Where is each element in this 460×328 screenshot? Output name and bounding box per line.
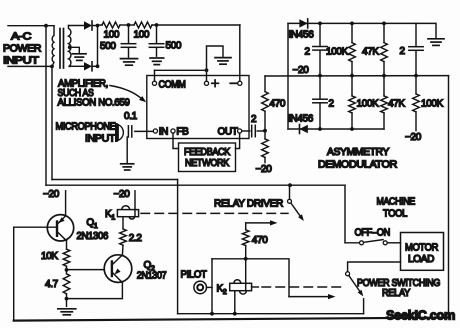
motor load box <box>401 233 444 271</box>
wire node left to pilot <box>212 258 246 260</box>
wire comm drop <box>154 70 156 81</box>
transformer T1 core <box>59 29 61 69</box>
wire K2 stub <box>252 286 259 288</box>
node secondary center tap <box>68 45 72 49</box>
node mid rail a <box>318 74 322 78</box>
wire inner rail <box>52 179 178 181</box>
svg-text:OFF–ON: OFF–ON <box>354 228 390 239</box>
ground microphone <box>121 163 134 165</box>
svg-text:Q1: Q1 <box>86 218 97 231</box>
resistor 100K row1 <box>351 23 353 42</box>
wire to off-on <box>345 242 360 244</box>
svg-text:NETWORK: NETWORK <box>185 158 230 169</box>
wire outer rail <box>46 184 345 186</box>
svg-text:K2: K2 <box>217 284 227 297</box>
node demod input <box>263 129 267 133</box>
resistor 470 driver <box>242 230 249 246</box>
wire Q1 to 10K <box>66 241 68 250</box>
wire 10K to node <box>66 266 68 274</box>
wire left vertical from AC bottom to relay rail <box>51 66 53 179</box>
wire cap to junction <box>257 130 265 132</box>
svg-text:MICROPHONE: MICROPHONE <box>56 122 117 133</box>
svg-text:500: 500 <box>100 41 116 52</box>
wire to filter <box>98 24 103 26</box>
wire demod minus20 rail <box>265 75 449 77</box>
wire center tap to ground <box>70 47 80 52</box>
svg-text:SeekIC.com: SeekIC.com <box>386 308 455 323</box>
resistor 100K right <box>415 76 417 94</box>
ground filter cap 1 <box>121 58 138 60</box>
wire secondary top to diode <box>69 25 85 27</box>
svg-text:K1: K1 <box>105 209 115 222</box>
node top rail a <box>318 22 322 26</box>
terminal OUT <box>238 129 242 133</box>
resistor 47K row1 <box>383 23 385 42</box>
resistor 100 second <box>134 22 152 28</box>
svg-text:RELAY: RELAY <box>382 288 411 299</box>
relay K1 coil <box>122 206 130 210</box>
svg-text:2N1307: 2N1307 <box>137 271 167 282</box>
node rectifier bottom <box>96 64 100 68</box>
label plus sign <box>212 82 219 84</box>
power switching relay contact <box>346 272 350 276</box>
wire AC bottom lead <box>8 65 52 67</box>
resistor 100K row2 <box>351 76 353 96</box>
svg-text:4.7: 4.7 <box>45 279 59 290</box>
wire AC top lead <box>8 25 54 27</box>
wire inner rail drop <box>177 180 179 314</box>
capacitor 500 first <box>128 25 130 43</box>
diode CR1 top rectifier <box>84 21 92 29</box>
wire rectifier output vertical <box>97 26 99 67</box>
svg-text:47K: 47K <box>388 99 405 110</box>
transistor Q2 2N1307 <box>104 255 132 283</box>
wire demod bottom rail <box>288 128 384 130</box>
svg-text:−20: −20 <box>114 189 131 200</box>
wire K1 feed <box>134 191 136 210</box>
svg-text:FB: FB <box>176 127 189 138</box>
wire right side vertical <box>448 76 450 318</box>
capacitor 2 row1 <box>319 23 321 46</box>
svg-text:LOAD: LOAD <box>408 254 434 265</box>
node mid rail c <box>382 74 386 78</box>
svg-text:2: 2 <box>251 114 257 125</box>
node 10K-4.7 <box>65 268 69 272</box>
feedback network box <box>179 143 236 172</box>
capacitor 500 second <box>156 25 158 43</box>
wire Q1 base <box>14 226 57 228</box>
mechanical link K1 dashed <box>141 212 288 214</box>
terminal FB <box>171 129 175 133</box>
wire demod top rail <box>288 22 416 24</box>
node top rail b <box>350 22 354 26</box>
diode CR2 bottom rectifier <box>84 62 92 70</box>
wire diode to junction <box>93 25 98 27</box>
wire between filters <box>120 24 134 26</box>
wire mic ground stem <box>126 137 128 163</box>
transformer T1 primary coil <box>52 26 54 67</box>
resistor 470 demod <box>264 76 266 92</box>
svg-text:A-C: A-C <box>11 32 31 43</box>
ground demod right <box>428 38 444 40</box>
svg-text:MOTOR: MOTOR <box>405 242 438 253</box>
ground emitter <box>58 308 76 310</box>
pilot lamp <box>194 281 207 294</box>
resistor 100 first <box>102 22 120 28</box>
svg-text:470: 470 <box>270 99 286 110</box>
relay K2 coil <box>234 280 241 284</box>
svg-text:COMM: COMM <box>159 79 186 90</box>
wire off-on to motor <box>387 242 400 244</box>
svg-text:2: 2 <box>329 99 335 110</box>
svg-text:10K: 10K <box>41 251 58 262</box>
resistor 2.2 <box>120 229 127 245</box>
wire K1 to 2.2 <box>122 217 124 229</box>
op-amp U1 amplifier box <box>147 76 249 139</box>
svg-text:IN: IN <box>159 127 168 138</box>
wire 2.2 to Q2 collector <box>121 245 124 255</box>
wire OUT to cap <box>242 130 250 132</box>
svg-text:MACHINE: MACHINE <box>376 196 415 207</box>
svg-text:47K: 47K <box>362 47 379 58</box>
wire motor to relay pivot <box>348 262 401 272</box>
wire Q1 collector up <box>65 191 67 216</box>
wire relay blade to rail <box>363 299 365 314</box>
ground center tap <box>73 53 87 55</box>
node pilot bottom <box>210 312 214 316</box>
wire arrow corner <box>245 223 247 230</box>
wire OUT to network <box>236 133 240 148</box>
node rectifier top <box>96 24 100 28</box>
svg-text:100: 100 <box>134 30 150 41</box>
label minus sign <box>230 82 236 84</box>
svg-text:470: 470 <box>252 235 268 246</box>
svg-text:−20: −20 <box>405 132 422 143</box>
microphone symbol <box>118 125 123 141</box>
wire contact feed <box>289 185 291 199</box>
svg-text:−20: −20 <box>293 65 310 76</box>
terminal IN <box>153 129 157 133</box>
svg-text:IN456: IN456 <box>289 30 315 41</box>
wire demod left edge <box>287 23 289 129</box>
diode IN456 top <box>299 19 307 27</box>
node top rail c <box>382 22 386 26</box>
terminal COMM <box>152 81 156 85</box>
svg-text:100K: 100K <box>326 47 349 58</box>
wire K2 feed <box>245 259 247 284</box>
wire minus supply vertical <box>239 25 241 81</box>
transformer T1 secondary coil <box>69 26 71 67</box>
svg-text:0.1: 0.1 <box>124 111 138 122</box>
ground amp hook <box>215 57 231 59</box>
wire pilot vertical <box>211 259 213 314</box>
node filter cap 1 <box>127 23 131 27</box>
wire node right <box>246 259 289 297</box>
svg-text:FEEDBACK: FEEDBACK <box>184 147 231 158</box>
svg-text:PILOT: PILOT <box>181 270 207 281</box>
wire diode to junction bottom <box>93 65 98 67</box>
svg-text:2: 2 <box>305 47 311 58</box>
wire comm-plus rail <box>155 69 207 71</box>
wire left vertical from AC top to machine-tool rail <box>45 26 47 186</box>
switch off-on <box>360 241 364 245</box>
wire node to Q2 base <box>67 269 112 271</box>
node K2 bottom <box>233 312 237 316</box>
wire secondary bottom to diode <box>71 65 85 67</box>
svg-text:2N1306: 2N1306 <box>77 231 109 242</box>
svg-text:INPUT: INPUT <box>85 133 115 144</box>
node mid rail d <box>414 74 418 78</box>
svg-text:100: 100 <box>104 30 120 41</box>
transistor Q1 2N1306 <box>47 215 73 241</box>
arrow from 470 to contact <box>246 222 272 224</box>
relay driver contact <box>288 199 292 203</box>
diode IN456 bottom <box>300 125 308 133</box>
node AC top junction <box>44 24 48 28</box>
svg-text:OUT: OUT <box>218 126 238 137</box>
svg-text:ALLISON NO.659: ALLISON NO.659 <box>58 98 131 109</box>
svg-text:2: 2 <box>400 46 406 57</box>
svg-text:TOOL: TOOL <box>383 208 408 219</box>
node relay contact feed <box>288 183 292 187</box>
svg-text:RELAY DRIVER: RELAY DRIVER <box>214 199 283 210</box>
svg-text:ASYMMETRY: ASYMMETRY <box>327 147 390 158</box>
node mid rail b <box>350 74 354 78</box>
svg-text:2.2: 2.2 <box>129 233 143 244</box>
wire ground hook <box>207 46 224 70</box>
resistor 4.7 <box>63 274 70 294</box>
pointer arrow to amplifier <box>110 86 143 100</box>
resistor 10K <box>63 249 70 266</box>
wire FB to network <box>173 133 179 148</box>
node plus junction <box>205 68 209 72</box>
wire 470 to node <box>245 246 247 259</box>
terminal minus <box>238 81 242 85</box>
node AC bottom junction <box>50 65 54 69</box>
node filter cap 2 <box>155 23 159 27</box>
wire bottom rail <box>14 318 449 321</box>
capacitor 0.1 coupling <box>127 126 129 137</box>
svg-text:DEMODULATOR: DEMODULATOR <box>318 160 397 171</box>
node driver <box>244 257 248 261</box>
wire outer rail drop <box>344 185 346 243</box>
wire filter out rail <box>152 24 240 26</box>
wire mic cap to IN <box>135 130 154 132</box>
capacitor 2 right <box>415 23 417 46</box>
node emitter junction <box>65 297 69 301</box>
svg-text:POWER: POWER <box>3 44 41 55</box>
wire plus drop <box>206 70 208 81</box>
svg-text:100K: 100K <box>357 99 380 110</box>
wire cap right ground hook <box>416 23 436 37</box>
wire pilot box bottom rail <box>178 313 364 315</box>
resistor bias lower <box>264 131 266 139</box>
terminal plus <box>204 81 208 85</box>
svg-text:−20: −20 <box>43 189 60 200</box>
resistor 47K row2 <box>383 76 385 96</box>
capacitor 2 coupling <box>251 125 253 136</box>
svg-text:100K: 100K <box>421 99 444 110</box>
wire left vertical Q1 base <box>13 227 15 320</box>
svg-text:−20: −20 <box>256 164 273 175</box>
node bot rail b <box>350 127 354 131</box>
svg-text:500: 500 <box>166 40 182 51</box>
capacitor 2 row2 <box>319 76 321 100</box>
wire K2 bottom lead <box>234 291 236 314</box>
mechanical link K2 dashed <box>262 286 344 288</box>
wire ground stem Q <box>66 299 68 307</box>
arrow K2 contact <box>289 296 329 298</box>
wire node to Q2 emitter <box>67 283 123 299</box>
svg-text:IN456: IN456 <box>288 114 314 125</box>
ground filter cap 2 <box>150 57 164 59</box>
node bot rail a <box>318 127 322 131</box>
wire 4.7 to node <box>66 294 68 299</box>
svg-text:INPUT: INPUT <box>3 56 39 67</box>
